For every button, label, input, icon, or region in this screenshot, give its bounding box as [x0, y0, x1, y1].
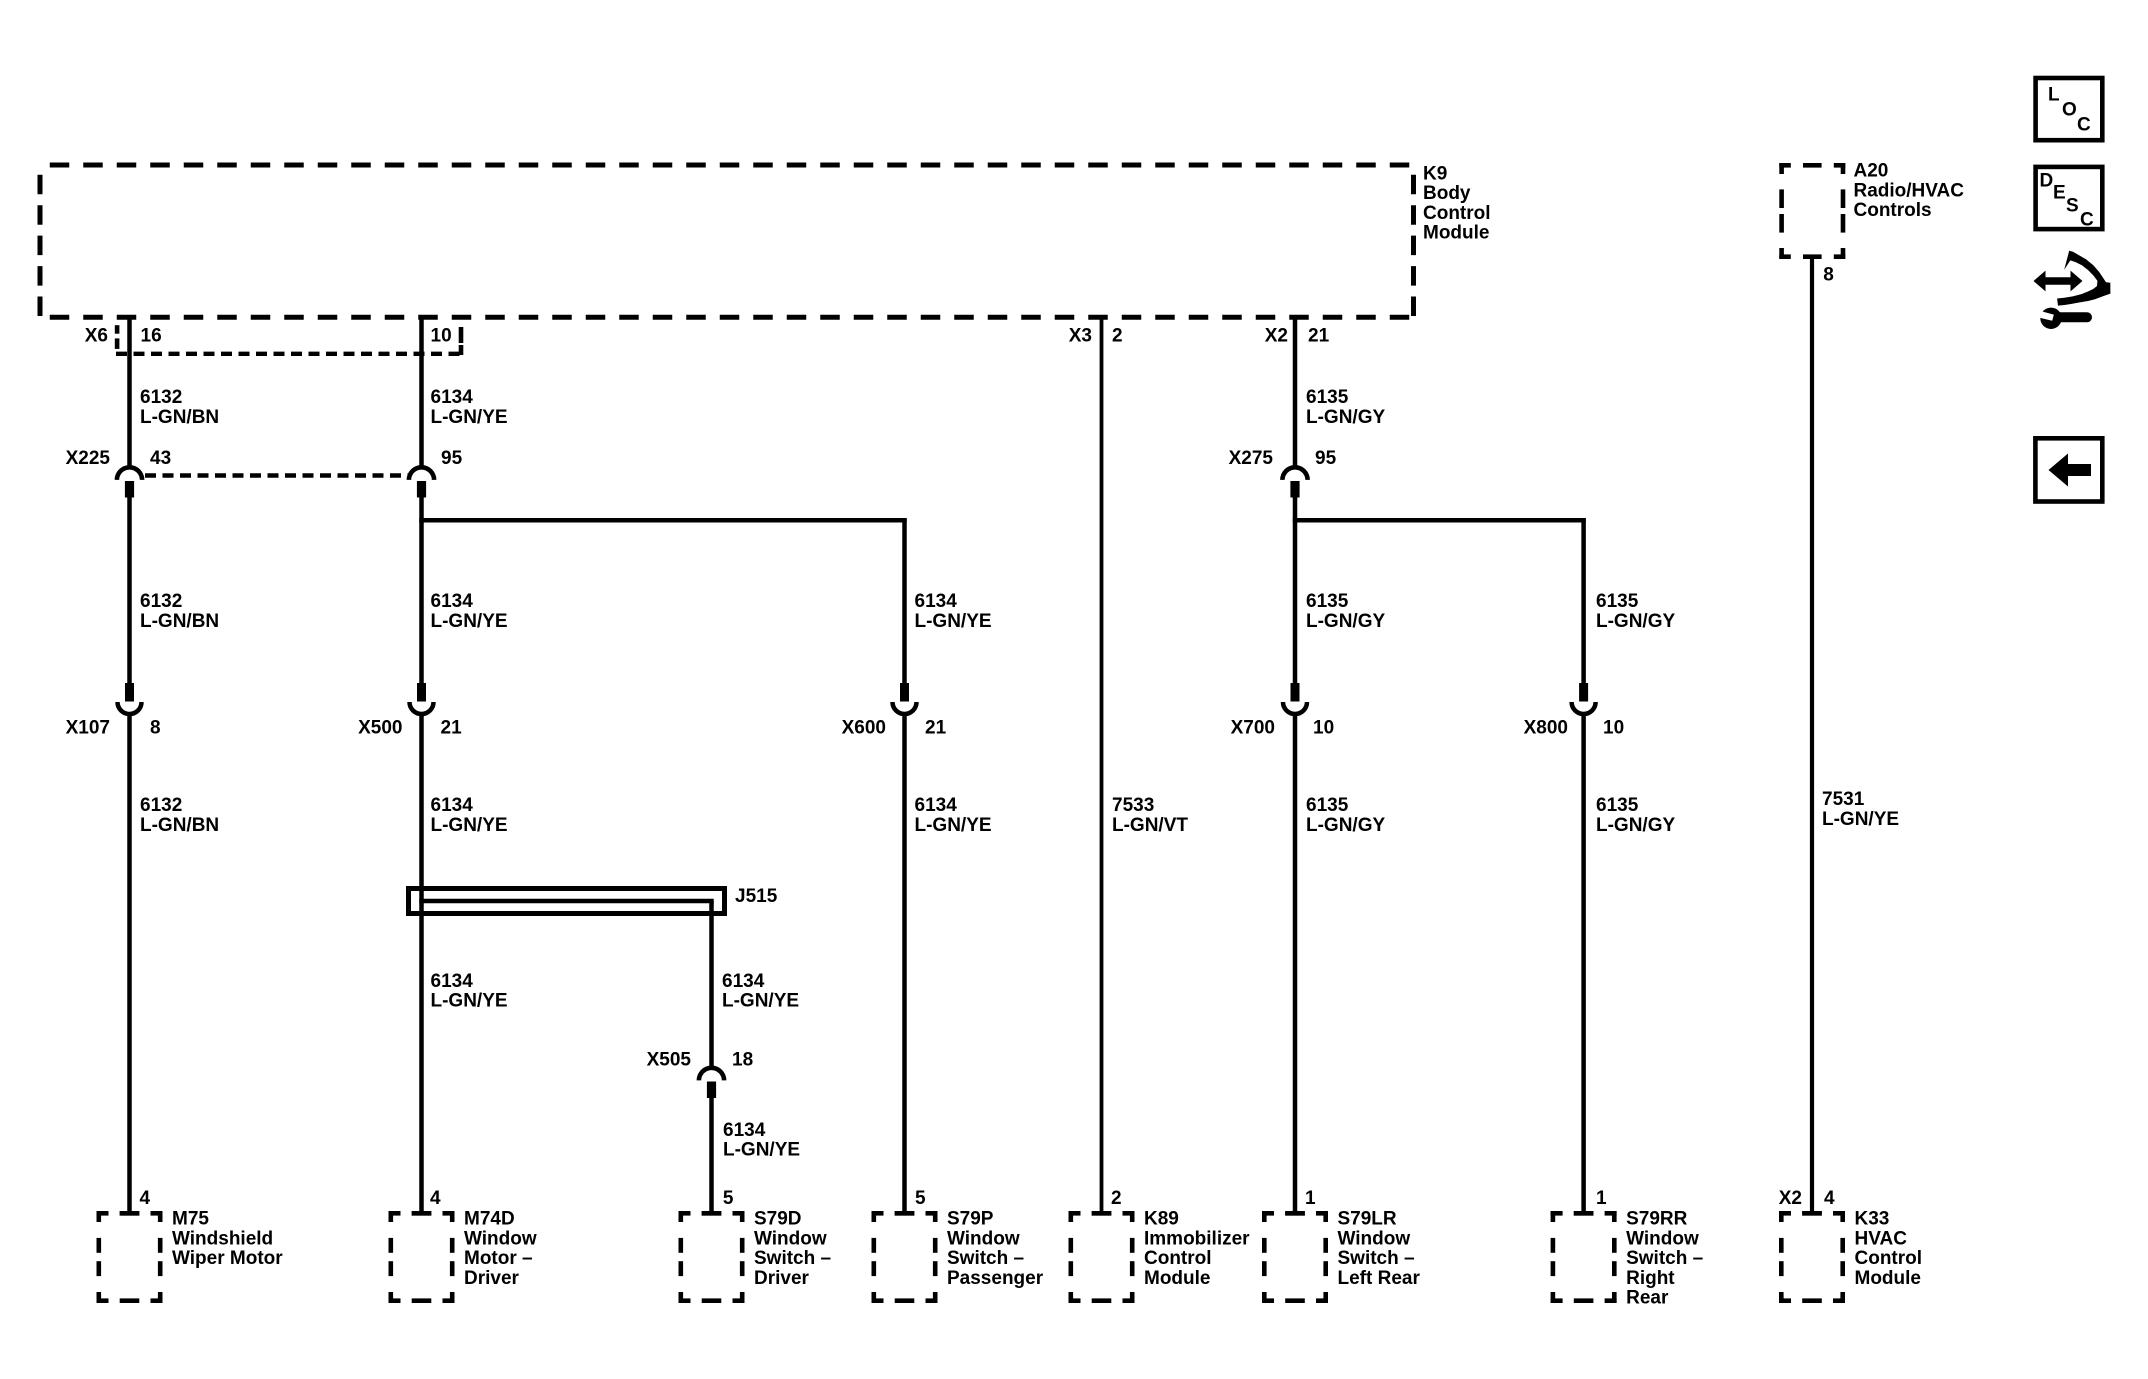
wire 6135 segment X800 to S79RR	[1581, 716, 1586, 1211]
wire 6134 branch to S79P (horizontal)	[419, 518, 906, 523]
svg-text:L-GN/GY: L-GN/GY	[1306, 815, 1385, 836]
svg-text:X2: X2	[1265, 326, 1288, 347]
svg-text:6134: 6134	[915, 591, 958, 612]
svg-text:D: D	[2040, 171, 2054, 192]
svg-text:95: 95	[1315, 448, 1337, 469]
svg-text:6135: 6135	[1306, 591, 1349, 612]
label K89	[1144, 1209, 1250, 1289]
svg-text:43: 43	[150, 448, 171, 469]
icon LOC box	[2036, 78, 2103, 140]
wire 6135 branch to S79RR (horizontal)	[1293, 518, 1586, 523]
svg-text:Window: Window	[1338, 1228, 1411, 1249]
svg-text:Windshield: Windshield	[172, 1228, 273, 1249]
svg-text:Control: Control	[1855, 1248, 1923, 1269]
svg-text:6135: 6135	[1596, 795, 1639, 816]
svg-text:6135: 6135	[1306, 387, 1349, 408]
svg-text:6134: 6134	[431, 971, 474, 992]
wire 7533 segment BCM pin2 (X3) to K89	[1100, 315, 1104, 1211]
icon back arrow box	[2035, 438, 2102, 501]
svg-text:L-GN/GY: L-GN/GY	[1306, 611, 1385, 632]
inline connector X700 pin 10	[1283, 683, 1307, 714]
svg-text:1: 1	[1305, 1188, 1316, 1209]
svg-text:Window: Window	[947, 1228, 1020, 1249]
wire 6134 segment J515 to X505	[709, 901, 714, 1068]
svg-text:Switch –: Switch –	[1626, 1248, 1703, 1269]
svg-text:Right: Right	[1626, 1268, 1675, 1289]
svg-text:K89: K89	[1144, 1209, 1179, 1230]
svg-text:6132: 6132	[140, 795, 182, 816]
svg-text:S79P: S79P	[947, 1209, 994, 1230]
wire 6134 S79P branch vertical	[902, 518, 907, 683]
icon data link (double arrow, outline arrow, wrench)	[2034, 251, 2111, 329]
svg-text:Module: Module	[1423, 223, 1490, 244]
inline connector X600 pin 21	[893, 683, 917, 714]
svg-text:4: 4	[140, 1188, 151, 1209]
svg-text:6134: 6134	[431, 795, 474, 816]
label K9 Body Control Module	[1423, 163, 1491, 243]
svg-text:HVAC: HVAC	[1855, 1228, 1908, 1249]
svg-text:L-GN/BN: L-GN/BN	[140, 611, 219, 632]
svg-text:Window: Window	[464, 1228, 537, 1249]
wire 6132 segment BCM pin16 to X225	[127, 315, 132, 467]
svg-text:S: S	[2066, 196, 2079, 217]
svg-text:L-GN/YE: L-GN/YE	[431, 407, 508, 428]
motor M75 Windshield Wiper Motor	[97, 1211, 163, 1303]
svg-text:6135: 6135	[1306, 795, 1349, 816]
svg-text:Driver: Driver	[464, 1268, 520, 1289]
svg-text:2: 2	[1111, 1188, 1122, 1209]
svg-text:10: 10	[1313, 718, 1334, 739]
svg-text:Motor –: Motor –	[464, 1248, 533, 1269]
svg-text:O: O	[2062, 100, 2077, 121]
svg-text:L-GN/VT: L-GN/VT	[1112, 815, 1188, 836]
svg-text:7531: 7531	[1822, 789, 1865, 810]
wire 6134 segment X505 to S79D	[709, 1097, 714, 1212]
svg-text:Window: Window	[754, 1228, 827, 1249]
svg-text:1: 1	[1596, 1188, 1607, 1209]
wire 6132 segment X107 to M75	[127, 716, 132, 1211]
svg-text:L-GN/YE: L-GN/YE	[915, 815, 992, 836]
svg-text:M75: M75	[172, 1209, 209, 1230]
svg-text:L-GN/BN: L-GN/BN	[140, 407, 219, 428]
svg-text:L-GN/YE: L-GN/YE	[915, 611, 992, 632]
svg-text:10: 10	[1603, 718, 1624, 739]
svg-text:X500: X500	[358, 718, 402, 739]
connector X6 left separator dashes	[115, 325, 120, 349]
svg-text:Controls: Controls	[1854, 200, 1932, 221]
svg-text:7533: 7533	[1112, 795, 1154, 816]
svg-text:Control: Control	[1144, 1248, 1212, 1269]
wire 6134 segment J515 to M74D	[419, 916, 424, 1211]
label M75	[172, 1209, 283, 1270]
svg-text:M74D: M74D	[464, 1209, 515, 1230]
svg-text:Radio/HVAC: Radio/HVAC	[1854, 180, 1965, 201]
svg-text:L-GN/GY: L-GN/GY	[1596, 815, 1675, 836]
inline connector X107 pin 8	[118, 683, 142, 714]
svg-text:L-GN/YE: L-GN/YE	[1822, 809, 1899, 830]
svg-text:X600: X600	[842, 718, 886, 739]
svg-text:L-GN/GY: L-GN/GY	[1306, 407, 1385, 428]
svg-text:X225: X225	[66, 448, 111, 469]
svg-text:21: 21	[1308, 326, 1330, 347]
svg-text:6132: 6132	[140, 387, 182, 408]
svg-text:10: 10	[431, 326, 452, 347]
svg-text:X800: X800	[1524, 718, 1568, 739]
svg-text:16: 16	[141, 326, 162, 347]
svg-text:2: 2	[1112, 326, 1123, 347]
splice J515 internal bus	[419, 899, 713, 904]
svg-text:6134: 6134	[431, 387, 474, 408]
inline connector X225 pin 43	[117, 467, 142, 497]
svg-text:L-GN/BN: L-GN/BN	[140, 815, 219, 836]
svg-text:E: E	[2053, 183, 2066, 204]
wire 7531 segment A20 pin8 to K33	[1810, 259, 1814, 1211]
svg-text:21: 21	[441, 718, 463, 739]
svg-text:6134: 6134	[431, 591, 474, 612]
svg-text:L-GN/YE: L-GN/YE	[431, 815, 508, 836]
connector X6 bottom dashed line	[116, 352, 463, 356]
svg-text:95: 95	[441, 448, 463, 469]
svg-text:18: 18	[732, 1050, 753, 1071]
svg-text:Switch –: Switch –	[947, 1248, 1024, 1269]
wire 6135 segment BCM pin21 (X2) to X275	[1293, 315, 1298, 467]
wire 6134 segment X225 to X500	[419, 496, 424, 683]
wire 6134 segment X500 to J515	[419, 716, 424, 916]
svg-text:A20: A20	[1854, 161, 1889, 182]
label M74D	[464, 1209, 537, 1289]
splice pack J515 (box)	[409, 889, 725, 914]
svg-text:X275: X275	[1229, 448, 1274, 469]
inline connector X225 pin 95	[409, 467, 434, 497]
svg-text:Passenger: Passenger	[947, 1268, 1044, 1289]
svg-text:X6: X6	[85, 326, 108, 347]
svg-text:K33: K33	[1855, 1209, 1890, 1230]
svg-text:6134: 6134	[722, 971, 765, 992]
svg-text:C: C	[2077, 115, 2091, 136]
svg-text:Driver: Driver	[754, 1268, 810, 1289]
svg-text:8: 8	[1823, 265, 1834, 286]
label S79RR	[1626, 1209, 1703, 1309]
switch S79RR Window Switch Right Rear	[1551, 1211, 1617, 1303]
connector X225 dashed link line	[145, 473, 410, 477]
svg-text:Switch –: Switch –	[754, 1248, 831, 1269]
svg-text:6134: 6134	[915, 795, 958, 816]
wire 6135 S79RR branch vertical	[1581, 518, 1586, 683]
svg-text:L-GN/YE: L-GN/YE	[431, 991, 508, 1012]
svg-text:S79D: S79D	[754, 1209, 802, 1230]
svg-text:Left Rear: Left Rear	[1338, 1268, 1421, 1289]
label S79P	[947, 1209, 1044, 1289]
svg-text:L: L	[2048, 85, 2060, 106]
svg-text:L-GN/YE: L-GN/YE	[722, 991, 799, 1012]
wire 6132 segment X225 to X107	[127, 496, 132, 683]
svg-text:X505: X505	[647, 1050, 692, 1071]
wire 6134 segment X600 to S79P	[902, 716, 907, 1211]
svg-text:Window: Window	[1626, 1228, 1699, 1249]
svg-text:X107: X107	[66, 718, 110, 739]
svg-text:S79LR: S79LR	[1338, 1209, 1397, 1230]
svg-text:L-GN/YE: L-GN/YE	[723, 1140, 800, 1161]
svg-text:21: 21	[925, 718, 947, 739]
module K89 Immobilizer Control Module	[1069, 1211, 1135, 1303]
module K33 HVAC Control Module	[1779, 1211, 1845, 1303]
label A20 Radio/HVAC Controls	[1854, 161, 1965, 222]
svg-text:Control: Control	[1423, 203, 1491, 224]
svg-text:4: 4	[1824, 1188, 1835, 1209]
svg-text:Rear: Rear	[1626, 1288, 1669, 1309]
inline connector X800 pin 10	[1572, 683, 1596, 714]
connector X6 right separator dashes	[459, 327, 464, 355]
svg-text:S79RR: S79RR	[1626, 1209, 1688, 1230]
svg-text:6132: 6132	[140, 591, 182, 612]
svg-text:X700: X700	[1231, 718, 1275, 739]
label S79LR	[1338, 1209, 1421, 1289]
switch S79D Window Switch Driver	[679, 1211, 745, 1303]
module A20 Radio/HVAC Controls (dashed box)	[1779, 163, 1845, 259]
label K33	[1855, 1209, 1923, 1289]
switch S79P Window Switch Passenger	[872, 1211, 938, 1303]
svg-text:5: 5	[915, 1188, 926, 1209]
svg-text:Wiper Motor: Wiper Motor	[172, 1248, 283, 1269]
svg-text:6135: 6135	[1596, 591, 1639, 612]
svg-text:L-GN/GY: L-GN/GY	[1596, 611, 1675, 632]
svg-text:X2: X2	[1779, 1188, 1802, 1209]
svg-text:8: 8	[150, 718, 161, 739]
svg-text:5: 5	[723, 1188, 734, 1209]
module K9 Body Control Module (dashed box)	[40, 165, 1414, 317]
label S79D	[754, 1209, 831, 1289]
svg-text:4: 4	[430, 1188, 441, 1209]
svg-text:Module: Module	[1855, 1268, 1922, 1289]
wire 6135 segment X275 to X700	[1293, 496, 1298, 683]
inline connector X500 pin 21	[410, 683, 434, 714]
wire 6135 segment X700 to S79LR	[1293, 716, 1298, 1211]
svg-text:X3: X3	[1069, 326, 1092, 347]
svg-text:Switch –: Switch –	[1338, 1248, 1415, 1269]
svg-text:Immobilizer: Immobilizer	[1144, 1228, 1250, 1249]
svg-text:J515: J515	[735, 886, 778, 907]
svg-text:C: C	[2080, 210, 2094, 231]
svg-text:6134: 6134	[723, 1120, 766, 1141]
icon DESC box	[2036, 167, 2103, 231]
inline connector X275 pin 95	[1282, 467, 1307, 497]
motor M74D Window Motor Driver	[389, 1211, 455, 1303]
inline connector X505 pin 18	[699, 1068, 724, 1098]
wire 6134 segment BCM pin10 to X225	[419, 315, 424, 467]
svg-text:Module: Module	[1144, 1268, 1211, 1289]
svg-text:Body: Body	[1423, 183, 1471, 204]
svg-text:K9: K9	[1423, 163, 1447, 184]
switch S79LR Window Switch Left Rear	[1262, 1211, 1328, 1303]
svg-text:L-GN/YE: L-GN/YE	[431, 611, 508, 632]
